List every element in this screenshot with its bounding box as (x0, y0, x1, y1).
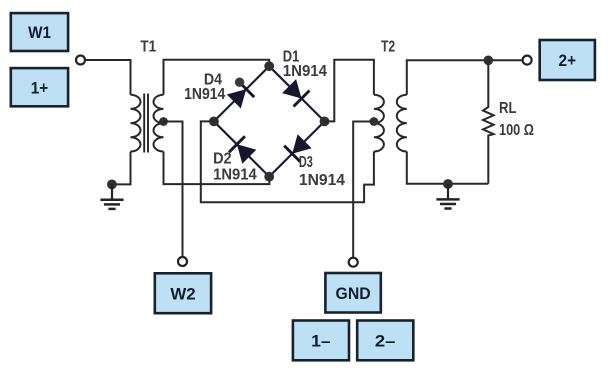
T1 secondary center tap junction (159, 117, 168, 126)
wire T1 secondary top to bridge top node (164, 60, 270, 95)
T1 core (143, 94, 145, 153)
node bottom vertex (264, 172, 274, 182)
node right vertex (320, 117, 330, 127)
bridge edge right-bottom (269, 121, 324, 176)
terminal circle W2 (178, 257, 187, 266)
junction dot ground rail (443, 179, 453, 189)
T2 primary center tap junction (370, 117, 379, 126)
svg-text:W1: W1 (28, 23, 51, 42)
T1 secondary winding (154, 95, 164, 152)
svg-text:2–: 2– (375, 332, 396, 351)
terminal box 2- (357, 321, 413, 361)
svg-text:D3: D3 (299, 154, 313, 171)
terminal circle GND (349, 258, 358, 267)
svg-text:D2: D2 (213, 150, 232, 167)
T1 primary winding (131, 95, 141, 152)
svg-text:1–: 1– (311, 332, 331, 351)
terminal box 1- (293, 321, 349, 361)
T2 secondary winding (397, 95, 407, 152)
bridge edge top-right (269, 66, 324, 121)
terminal box W2 (155, 273, 211, 313)
svg-text:W2: W2 (170, 284, 195, 303)
wire T2 center tap to GND terminal (353, 122, 374, 258)
svg-text:T2: T2 (381, 38, 395, 55)
node top vertex (264, 61, 274, 71)
junction dot at T1 ground (107, 180, 117, 190)
wire left vertex to T2 primary bottom (201, 121, 374, 202)
svg-text:1N914: 1N914 (213, 166, 257, 183)
wire T2 secondary bottom ground rail (407, 152, 489, 184)
svg-text:1N914: 1N914 (184, 86, 225, 103)
wire right vertex to T2 primary top (325, 60, 374, 122)
diode D4 (227, 89, 246, 108)
terminal circle W1/1+ (76, 56, 85, 65)
svg-text:100 Ω: 100 Ω (499, 122, 534, 139)
bridge edge left-top (214, 66, 269, 121)
diode D2 (237, 144, 256, 163)
wire W1 terminal to T1 primary top (86, 60, 131, 95)
terminal box GND (325, 273, 380, 313)
wire T2 secondary top to output node (407, 60, 522, 94)
wire T1 secondary bottom to bridge bottom node (164, 152, 270, 185)
terminal box 1+ (11, 68, 68, 106)
wire T1 primary bottom to ground (112, 152, 131, 185)
terminal box 2+ (540, 40, 595, 80)
ground symbol below T1 (111, 184, 113, 199)
svg-text:GND: GND (336, 284, 371, 303)
ground symbol at output (447, 184, 449, 199)
node left vertex (209, 117, 219, 127)
svg-text:RL: RL (499, 100, 517, 117)
terminal box W1 (11, 13, 68, 51)
polarity dot near D4 (235, 78, 244, 87)
diode D3 (292, 134, 311, 153)
svg-text:2+: 2+ (559, 51, 577, 70)
bridge edge bottom-left (214, 121, 269, 176)
svg-text:1+: 1+ (31, 78, 49, 97)
svg-text:1N914: 1N914 (283, 63, 327, 80)
T2 primary winding (374, 95, 384, 152)
svg-text:T1: T1 (140, 39, 156, 56)
terminal circle 2+ (523, 56, 532, 65)
resistor RL (483, 60, 494, 183)
junction dot RL top (484, 56, 494, 66)
wire W2 tap from T1 center tap (164, 122, 183, 257)
diode D1 (282, 79, 301, 98)
svg-text:1N914: 1N914 (299, 172, 345, 189)
